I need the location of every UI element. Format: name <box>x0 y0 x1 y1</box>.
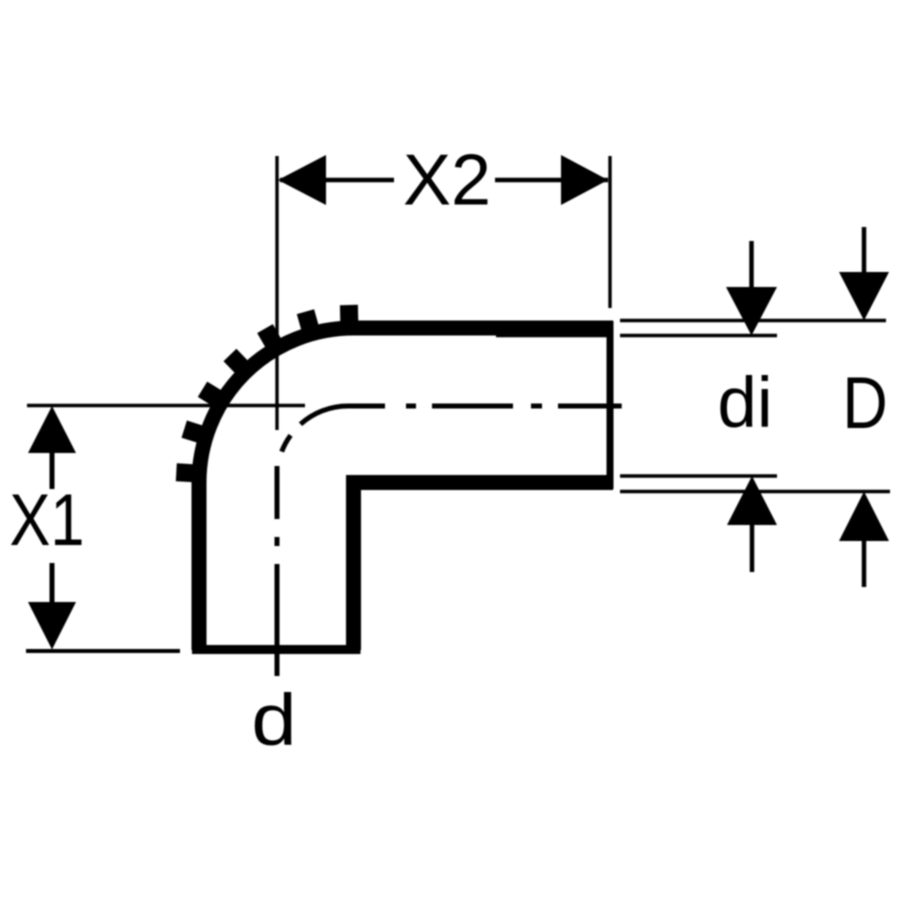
wire X1 top extension line <box>27 404 305 407</box>
wire X2 right extension line <box>608 156 611 308</box>
arrow X2 right <box>561 155 608 205</box>
wire outer elbow outline <box>199 328 613 650</box>
node centerline horizontal dash-dot <box>406 404 622 409</box>
wire X2 left extension line <box>275 156 278 430</box>
wire di bottom arrow stem <box>750 520 755 572</box>
wire di top arrow stem <box>749 241 754 292</box>
arrow di bottom up <box>727 476 777 525</box>
node centerline bend arc dashes <box>282 406 385 452</box>
svg-text:d: d <box>251 680 296 761</box>
arrow X2 left <box>278 155 326 205</box>
label d <box>251 680 296 761</box>
wire X2 dimension line <box>280 178 608 183</box>
label D <box>842 363 887 444</box>
svg-text:X2: X2 <box>403 141 491 221</box>
svg-text:X1: X1 <box>9 480 84 561</box>
arrow D bottom up <box>839 492 889 542</box>
label di <box>717 364 772 443</box>
label X2 <box>403 141 491 221</box>
wire D bottom arrow stem <box>862 536 867 587</box>
wire right end cap <box>607 321 614 489</box>
arrow di top down <box>726 287 777 336</box>
wire bottom end cap <box>192 645 361 654</box>
wire socket line <box>496 335 612 338</box>
arrow D top down <box>839 272 889 321</box>
arrow X1 up <box>28 406 76 453</box>
node centerline vertical dash-dot <box>275 466 280 676</box>
wire D top extension line <box>620 319 886 322</box>
svg-text:di: di <box>717 364 772 443</box>
wire inner elbow corner <box>354 483 614 651</box>
label X1 <box>9 480 84 561</box>
wire D bottom extension line <box>620 490 890 493</box>
wire X1 dimension line <box>50 453 55 602</box>
wire di top extension line <box>620 334 777 337</box>
wire D top arrow stem <box>862 227 867 277</box>
svg-text:D: D <box>842 363 887 444</box>
wire di bottom extension line <box>620 474 777 477</box>
wire X1 bottom extension line <box>26 649 180 653</box>
arrow X1 down <box>28 602 76 650</box>
teeth <box>176 305 358 483</box>
